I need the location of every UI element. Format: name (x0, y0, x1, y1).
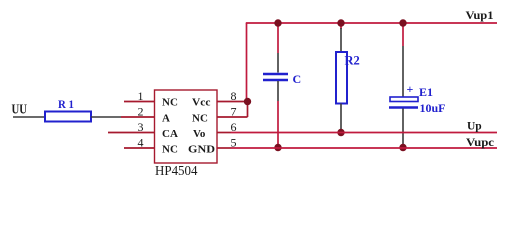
wire R1 to pin2 (91, 116, 121, 118)
junction E1 bottom rail (399, 144, 406, 151)
pin 7 (217, 116, 248, 118)
svg-text:E1: E1 (419, 85, 433, 99)
junction R2 on Up rail (337, 129, 344, 136)
svg-text:A: A (162, 113, 170, 125)
lead E1 top (402, 46, 404, 97)
svg-text:1: 1 (138, 89, 144, 103)
pin 2 (121, 116, 155, 118)
svg-text:HP4504: HP4504 (155, 163, 198, 178)
svg-text:Vup1: Vup1 (466, 8, 494, 22)
svg-text:8: 8 (231, 89, 237, 103)
svg-text:CA: CA (162, 128, 178, 140)
lead E1 bottom (402, 109, 404, 148)
svg-text:Up: Up (467, 121, 482, 133)
svg-text:Vcc: Vcc (192, 97, 211, 109)
capacitor C (263, 72, 301, 86)
svg-text:NC: NC (192, 113, 208, 125)
pin 1 (124, 101, 155, 103)
svg-text:10uF: 10uF (420, 101, 446, 115)
wire rail to R2 (340, 23, 342, 29)
lead C bottom (277, 81, 279, 101)
svg-text:NC: NC (162, 144, 178, 156)
pin 3 (108, 132, 155, 134)
junction R2 top rail (337, 19, 344, 26)
IC U1 HP4504 body (155, 90, 218, 178)
wire rail to E1 (402, 23, 404, 46)
Vcc top rail (246, 22, 497, 24)
svg-text:Vupc: Vupc (466, 135, 495, 149)
pin 4 (124, 147, 155, 149)
resistor R1 (45, 97, 91, 122)
svg-text:R 1: R 1 (58, 97, 74, 111)
pin 8 (217, 101, 248, 103)
svg-text:7: 7 (231, 105, 237, 119)
wire pin7 up to pin8 node (247, 102, 249, 118)
svg-text:NC: NC (162, 97, 178, 109)
resistor R2 (336, 52, 360, 104)
Vupc rail from pin 5 (231, 147, 497, 149)
junction pin8/pin7 (244, 98, 251, 105)
wire C to Vupc rail (277, 101, 279, 148)
lead R2 top (340, 28, 342, 52)
svg-text:3: 3 (138, 120, 144, 134)
capacitor E1 (389, 82, 446, 115)
junction C bottom rail (274, 144, 281, 151)
svg-text:4: 4 (138, 136, 144, 150)
svg-text:2: 2 (138, 105, 144, 119)
svg-text:+: + (407, 82, 414, 96)
svg-text:Vo: Vo (193, 128, 206, 140)
svg-text:R2: R2 (345, 54, 360, 68)
lead R2 bottom (340, 104, 342, 133)
wire pin8 node up to Vcc rail (246, 23, 248, 102)
pin 6 (217, 132, 231, 134)
junction C top rail (274, 19, 281, 26)
pin 5 (217, 147, 231, 149)
svg-text:C: C (293, 72, 302, 86)
svg-text:UU: UU (12, 103, 28, 118)
Up rail from pin 6 (231, 132, 497, 134)
junction E1 top rail (399, 19, 406, 26)
svg-text:GND: GND (188, 145, 215, 156)
wire UU to R1 (13, 116, 45, 118)
wire rail to C (277, 23, 279, 53)
lead C top (277, 53, 279, 73)
